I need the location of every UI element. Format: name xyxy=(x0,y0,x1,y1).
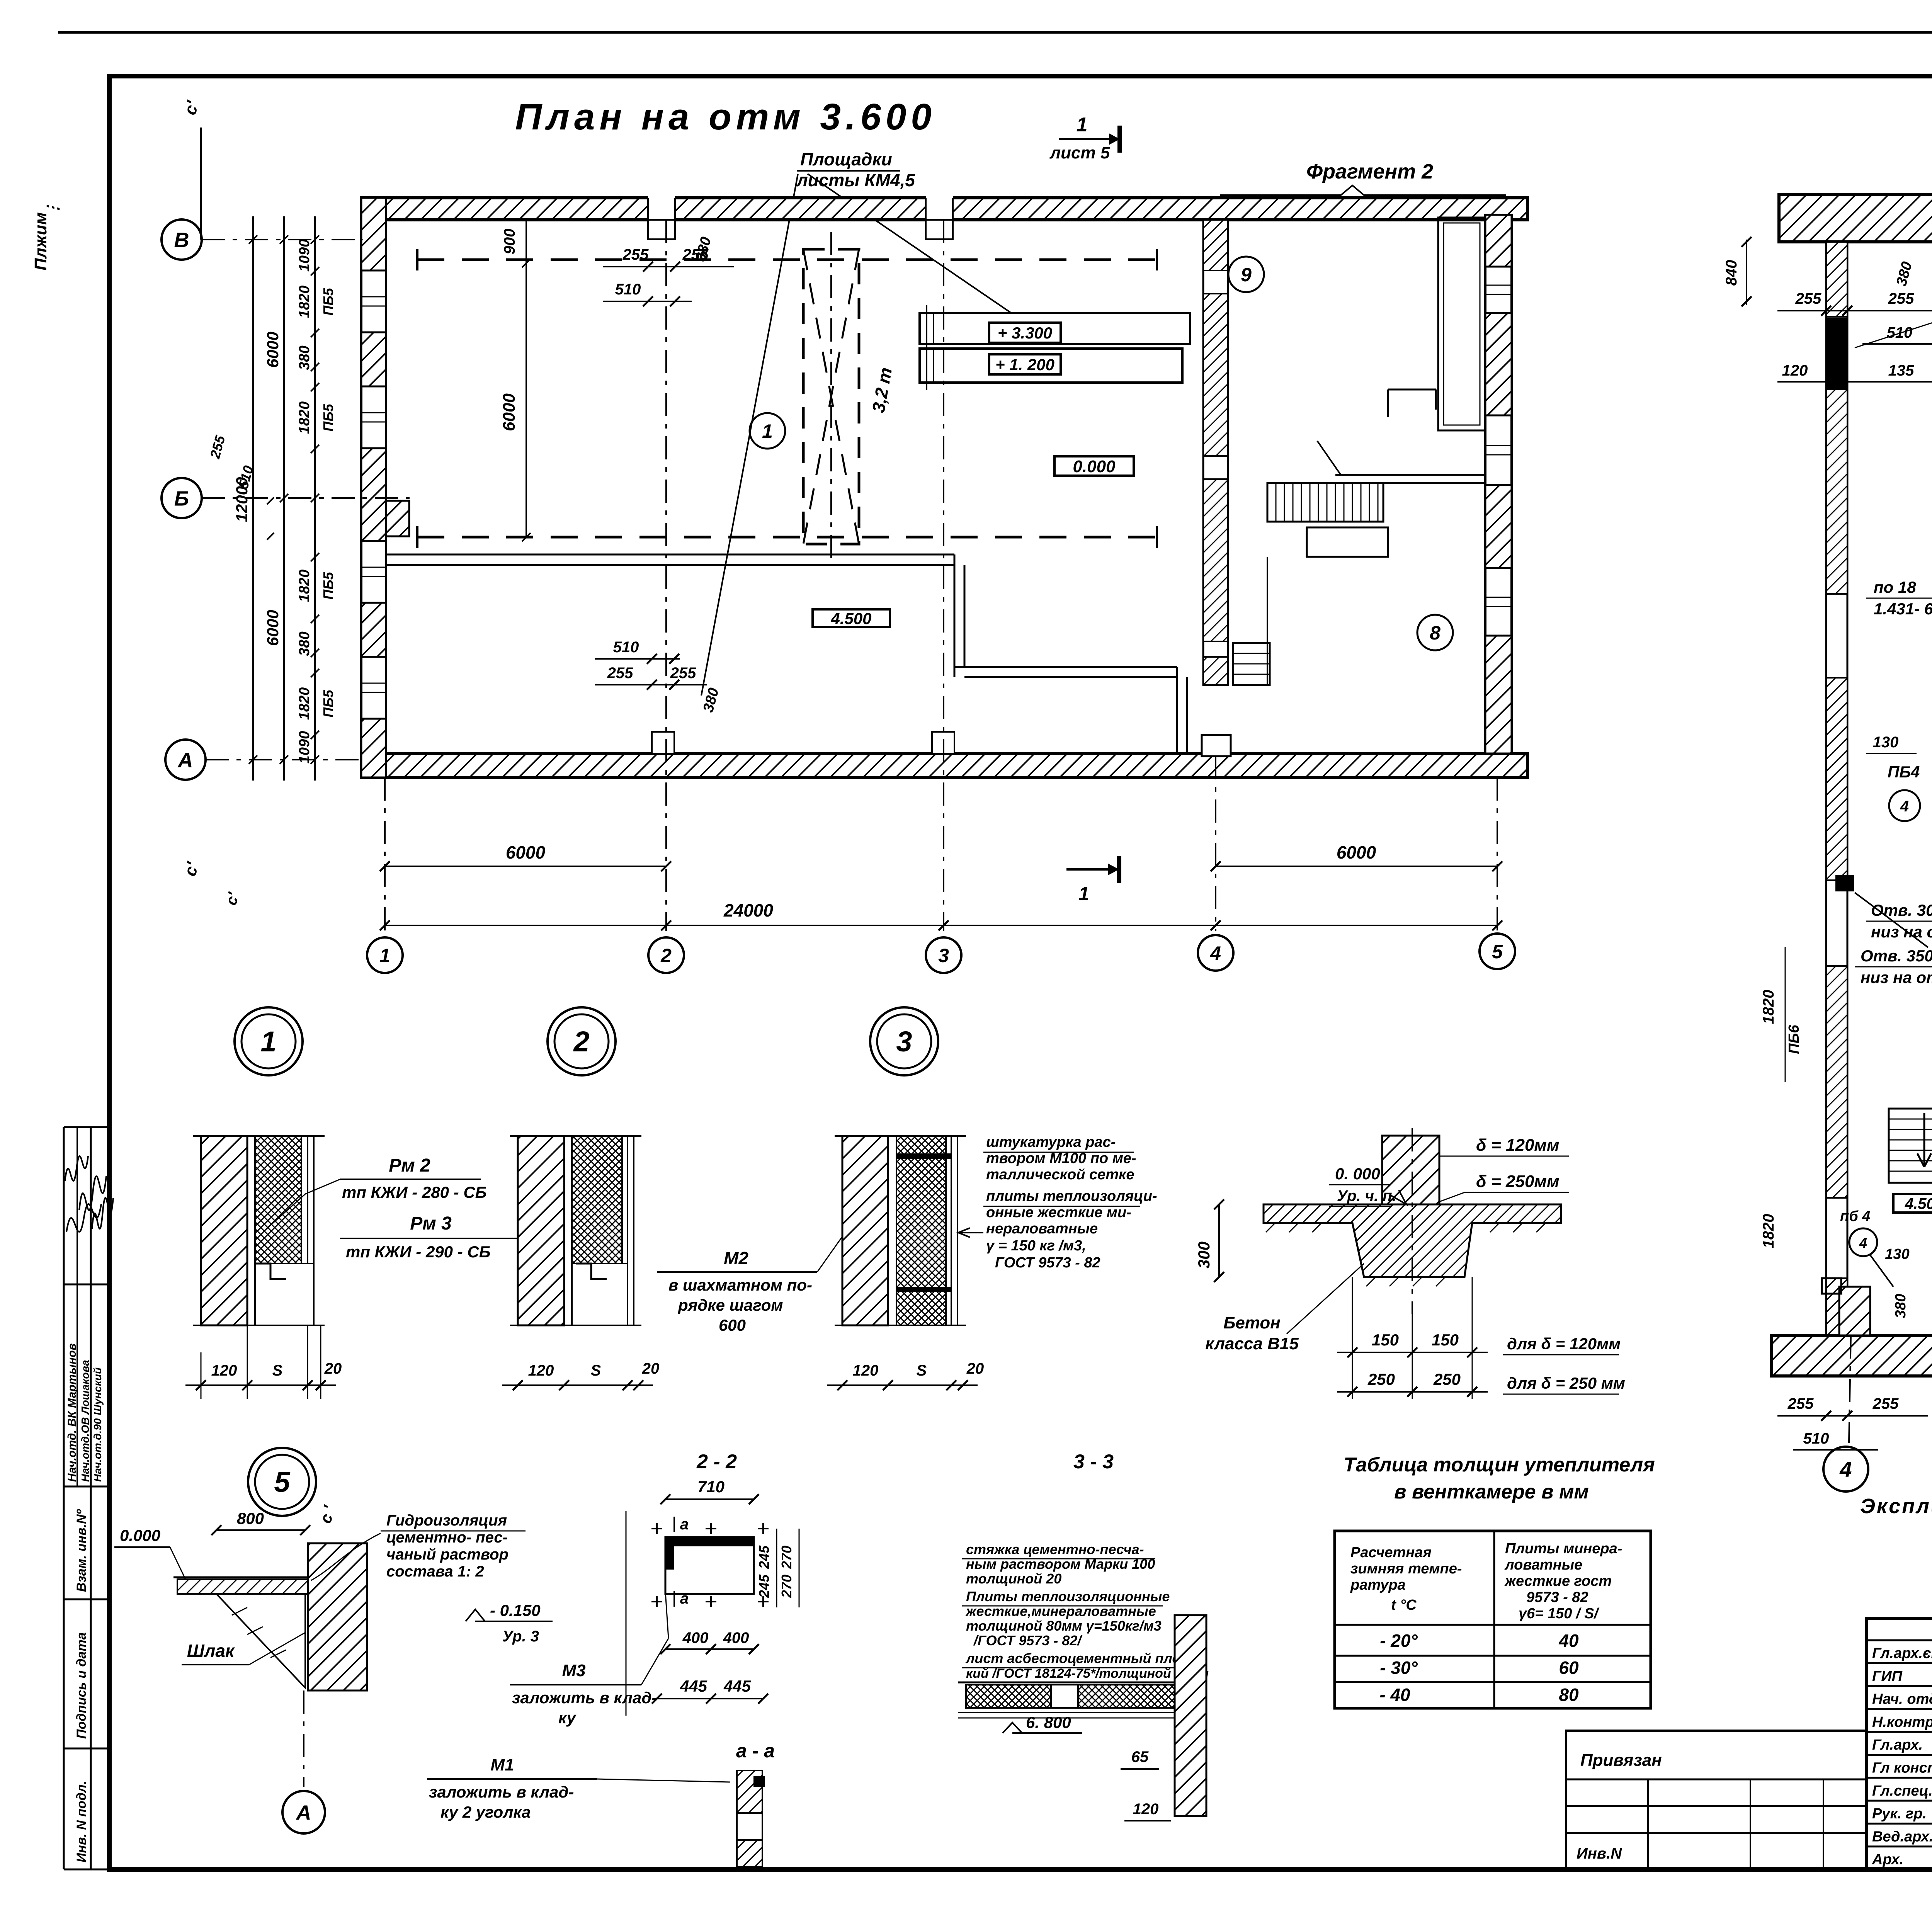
svg-text:1: 1 xyxy=(1078,883,1089,905)
node4 wall stub xyxy=(1382,1136,1439,1204)
svg-text:Бетон: Бетон xyxy=(1223,1313,1281,1332)
svg-text:40: 40 xyxy=(1558,1631,1579,1651)
svg-text:255: 255 xyxy=(1787,1395,1814,1412)
svg-text:γ6= 150 / S/: γ6= 150 / S/ xyxy=(1519,1605,1599,1622)
svg-text:для δ = 250 мм: для δ = 250 мм xyxy=(1507,1374,1625,1392)
svg-text:М3: М3 xyxy=(562,1661,585,1680)
svg-text:1820: 1820 xyxy=(1760,990,1777,1024)
node5 slag triangle xyxy=(216,1594,305,1688)
svg-text:250: 250 xyxy=(1433,1370,1461,1388)
minus 0150 mark xyxy=(466,1609,485,1621)
platform beams xyxy=(920,313,1190,344)
svg-text:Гл.арх.єн: Гл.арх.єн xyxy=(1872,1645,1932,1662)
svg-text:6000: 6000 xyxy=(264,610,282,646)
crane runway dashed lines xyxy=(417,259,1157,261)
svg-text:- 20°: - 20° xyxy=(1380,1631,1418,1651)
svg-text:250: 250 xyxy=(1367,1370,1395,1388)
svg-text:а: а xyxy=(680,1516,689,1533)
svg-text:9573 - 82: 9573 - 82 xyxy=(1526,1589,1588,1605)
svg-text:300: 300 xyxy=(1195,1242,1213,1269)
frag bottom wall xyxy=(1772,1335,1932,1376)
svg-text:Нач. отд: Нач. отд xyxy=(1872,1691,1932,1708)
svg-text:- 40: - 40 xyxy=(1379,1685,1410,1705)
bottom dim row 6000 xyxy=(385,866,666,867)
svg-text:6000: 6000 xyxy=(506,842,546,862)
crane outline dashed xyxy=(803,249,859,544)
left margin table strip xyxy=(64,1126,109,1128)
svg-text:δ = 250мм: δ = 250мм xyxy=(1476,1172,1560,1191)
svg-text:в венткамере в мм: в венткамере в мм xyxy=(1394,1481,1589,1503)
svg-text:135: 135 xyxy=(1888,362,1914,379)
node4 ground band xyxy=(1264,1204,1561,1277)
svg-text:ловатные: ловатные xyxy=(1504,1557,1582,1573)
svg-text:плиты теплоизоляци-: плиты теплоизоляци- xyxy=(986,1188,1157,1204)
svg-text:Ур. ч. п.: Ур. ч. п. xyxy=(1337,1187,1396,1204)
svg-text:Отв. 350х350 ОВ: Отв. 350х350 ОВ xyxy=(1861,947,1932,965)
svg-text:Гл.спец.: Гл.спец. xyxy=(1872,1783,1932,1799)
svg-text:20: 20 xyxy=(324,1360,342,1377)
node2 dims xyxy=(502,1384,653,1386)
svg-text:1090: 1090 xyxy=(296,731,313,764)
axis A row xyxy=(206,759,363,760)
svg-text:445: 445 xyxy=(680,1677,707,1695)
node3 wall section xyxy=(842,1136,888,1325)
leader line long diagonal xyxy=(701,174,798,696)
svg-text:ГОСТ 9573 - 82: ГОСТ 9573 - 82 xyxy=(995,1255,1100,1271)
axis4 wall chimney xyxy=(1202,735,1231,756)
svg-text:S: S xyxy=(272,1362,283,1379)
stair hook wall xyxy=(1387,389,1389,417)
svg-text:400: 400 xyxy=(723,1629,749,1646)
node1 dims xyxy=(201,1352,202,1399)
svg-text:Ур. 3: Ур. 3 xyxy=(502,1628,539,1645)
frag top wall xyxy=(1779,195,1932,242)
svg-text:кий /ГОСТ 18124-75*/толщиной 1: кий /ГОСТ 18124-75*/толщиной 10мм xyxy=(966,1666,1209,1681)
svg-text:S: S xyxy=(917,1362,927,1379)
svg-text:Инв. N подл.: Инв. N подл. xyxy=(74,1781,89,1862)
svg-text:состава 1: 2: состава 1: 2 xyxy=(386,1563,484,1580)
svg-text:120: 120 xyxy=(1133,1801,1159,1818)
svg-text:4: 4 xyxy=(1900,798,1909,815)
svg-text:255: 255 xyxy=(670,665,696,682)
vertical axes xyxy=(384,777,386,931)
svg-text:1.431- 6: 1.431- 6 xyxy=(1874,600,1932,618)
svg-text:Гл.арх.: Гл.арх. xyxy=(1872,1737,1923,1753)
room 9 circle xyxy=(1228,257,1264,292)
svg-text:0. 000: 0. 000 xyxy=(1335,1165,1380,1183)
left wall xyxy=(361,198,386,777)
svg-text:120: 120 xyxy=(528,1362,554,1379)
svg-text:4: 4 xyxy=(1839,1457,1852,1481)
svg-text:Плжим: Плжим xyxy=(31,212,50,270)
svg-text:- 30°: - 30° xyxy=(1380,1658,1418,1678)
svg-text:Инв.N: Инв.N xyxy=(1577,1845,1622,1862)
svg-text:130: 130 xyxy=(1885,1246,1909,1262)
svg-text:нераловатные: нераловатные xyxy=(986,1221,1098,1237)
svg-text:ГИП: ГИП xyxy=(1872,1668,1903,1684)
svg-text:800: 800 xyxy=(237,1509,264,1527)
svg-text:1820: 1820 xyxy=(296,286,313,318)
svg-text:900: 900 xyxy=(501,229,518,255)
node circle 3 xyxy=(870,1007,938,1075)
svg-text:150: 150 xyxy=(1372,1331,1399,1349)
node5 wall column xyxy=(308,1543,367,1690)
svg-text:М1: М1 xyxy=(490,1755,514,1774)
svg-text:В: В xyxy=(174,228,189,252)
0.000 label xyxy=(1054,456,1134,476)
svg-text:4: 4 xyxy=(1859,1235,1867,1251)
small stair with 4.500 xyxy=(1889,1109,1932,1183)
frag axis 4 circle xyxy=(1849,1335,1851,1443)
6.800 mark xyxy=(1003,1723,1022,1733)
bottom dim row 24000 xyxy=(385,925,1497,926)
svg-text:Отв. 300 х300 ОВ: Отв. 300 х300 ОВ xyxy=(1871,901,1932,919)
svg-text:2: 2 xyxy=(573,1026,589,1058)
svg-text:Нач.отд. ВК Мартынов: Нач.отд. ВК Мартынов xyxy=(66,1343,78,1482)
svg-text:стяжка цементно-песча-: стяжка цементно-песча- xyxy=(966,1541,1144,1557)
svg-text:Б: Б xyxy=(174,487,189,510)
room number 1 xyxy=(750,413,785,449)
svg-text:ку 2 уголка: ку 2 уголка xyxy=(440,1803,531,1821)
svg-text:4: 4 xyxy=(1210,942,1221,964)
svg-text:ПБ4: ПБ4 xyxy=(1888,763,1920,781)
svg-text:1090: 1090 xyxy=(296,239,313,272)
svg-text:толщиной 20: толщиной 20 xyxy=(966,1571,1061,1587)
svg-text:380: 380 xyxy=(296,631,313,656)
svg-text:1: 1 xyxy=(379,945,390,966)
svg-text:600: 600 xyxy=(719,1316,746,1334)
svg-text:510: 510 xyxy=(613,639,639,656)
svg-text:Н.контр: Н.контр xyxy=(1872,1714,1932,1730)
svg-text:S: S xyxy=(591,1362,601,1379)
svg-text:60: 60 xyxy=(1559,1658,1579,1678)
svg-text:γ = 150 кг /м3,: γ = 150 кг /м3, xyxy=(986,1238,1086,1254)
svg-text:ку: ку xyxy=(558,1709,577,1727)
svg-text:Рм 2: Рм 2 xyxy=(389,1155,430,1176)
node1 wall section xyxy=(201,1136,247,1325)
svg-text:5: 5 xyxy=(274,1466,291,1498)
svg-text:Шлак: Шлак xyxy=(187,1641,235,1661)
svg-text:2: 2 xyxy=(660,945,672,966)
svg-text:Плиты минера-: Плиты минера- xyxy=(1505,1541,1622,1557)
svg-text:1820: 1820 xyxy=(296,401,313,434)
svg-text:270: 270 xyxy=(779,1546,794,1569)
small stair xyxy=(1233,643,1270,685)
svg-text:заложить в клад-: заложить в клад- xyxy=(429,1783,574,1801)
svg-text:низ на отм.6.650: низ на отм.6.650 xyxy=(1871,923,1932,941)
corner detail bottom-left xyxy=(1839,1287,1870,1335)
svg-text:80: 80 xyxy=(1559,1685,1579,1705)
svg-text:рядке шагом: рядке шагом xyxy=(678,1296,783,1314)
svg-text:9: 9 xyxy=(1241,264,1252,286)
svg-text:1: 1 xyxy=(762,420,773,442)
svg-text:толщиной 80мм γ=150кг/м3: толщиной 80мм γ=150кг/м3 xyxy=(966,1618,1162,1634)
svg-text:Расчетная: Расчетная xyxy=(1350,1544,1432,1561)
node circle 5 xyxy=(248,1448,316,1516)
svg-text:120: 120 xyxy=(1782,362,1808,379)
axis B row xyxy=(202,239,363,240)
svg-text:20: 20 xyxy=(966,1360,984,1377)
svg-text:Площадки: Площадки xyxy=(800,149,892,169)
frag left wall lintel black xyxy=(1826,318,1847,389)
left dim chain 6000 xyxy=(283,216,285,781)
svg-text:255: 255 xyxy=(1795,290,1821,307)
insulation table xyxy=(1335,1531,1651,1708)
svg-text:δ = 120мм: δ = 120мм xyxy=(1476,1136,1560,1155)
svg-text:низ на отм. 7.600: низ на отм. 7.600 xyxy=(1861,968,1932,986)
svg-text:Арх.: Арх. xyxy=(1872,1852,1903,1868)
section mark 1 bottom xyxy=(1066,868,1108,871)
svg-text:2 - 2: 2 - 2 xyxy=(696,1451,737,1473)
svg-text:t °С: t °С xyxy=(1391,1597,1417,1613)
node2 wall section xyxy=(518,1136,564,1325)
svg-text:/ГОСТ 9573 - 82/: /ГОСТ 9573 - 82/ xyxy=(973,1633,1083,1648)
bottom wall xyxy=(361,753,1527,777)
node5 axis A xyxy=(303,1690,304,1787)
svg-text:6. 800: 6. 800 xyxy=(1026,1713,1071,1731)
svg-text:ПБ5: ПБ5 xyxy=(320,689,336,717)
svg-text:⋮: ⋮ xyxy=(44,201,61,216)
svg-text:ПБ5: ПБ5 xyxy=(320,571,336,599)
4.500 label xyxy=(813,609,890,627)
svg-text:245: 245 xyxy=(756,1574,772,1598)
+3.300 label xyxy=(989,323,1061,343)
svg-text:20: 20 xyxy=(642,1360,660,1377)
svg-text:0.000: 0.000 xyxy=(120,1526,160,1544)
svg-text:а - а: а - а xyxy=(736,1740,775,1762)
svg-text:Плиты теплоизоляционные: Плиты теплоизоляционные xyxy=(966,1588,1170,1604)
title block outer xyxy=(1866,1619,1932,1869)
svg-text:1: 1 xyxy=(1077,114,1088,136)
svg-text:400: 400 xyxy=(682,1629,709,1646)
frag left wall xyxy=(1826,242,1847,1335)
svg-text:цементно- пес-: цементно- пес- xyxy=(386,1529,508,1546)
stair treads xyxy=(1267,483,1383,522)
svg-text:120: 120 xyxy=(853,1362,879,1379)
svg-text:А: А xyxy=(296,1801,311,1824)
room 8 circle xyxy=(1417,615,1453,650)
svg-text:ратура: ратура xyxy=(1350,1577,1406,1593)
svg-text:А: А xyxy=(177,748,193,772)
svg-text:Привязан: Привязан xyxy=(1580,1751,1662,1770)
svg-text:0.000: 0.000 xyxy=(1073,457,1116,476)
stair lower enclosure line xyxy=(1267,557,1268,685)
section mark 1 list5 top xyxy=(1059,138,1109,140)
svg-text:3 - 3: 3 - 3 xyxy=(1073,1451,1114,1473)
diagonal door leader xyxy=(1317,441,1341,475)
svg-text:в шахматном по-: в шахматном по- xyxy=(668,1276,812,1294)
svg-text:255: 255 xyxy=(1872,1395,1899,1412)
svg-text:листы КМ4,5: листы КМ4,5 xyxy=(796,170,915,190)
svg-text:тп КЖИ - 290 - СБ: тп КЖИ - 290 - СБ xyxy=(346,1243,490,1261)
svg-text:класса В15: класса В15 xyxy=(1205,1334,1299,1353)
svg-text:130: 130 xyxy=(1873,734,1899,751)
svg-text:зимняя темпе-: зимняя темпе- xyxy=(1350,1561,1462,1577)
svg-text:+ 1. 200: + 1. 200 xyxy=(995,355,1054,374)
svg-text:1: 1 xyxy=(260,1026,276,1058)
node4 dim rows xyxy=(1352,1277,1353,1399)
svg-text:270: 270 xyxy=(779,1575,794,1598)
margin signatures xyxy=(65,1156,88,1181)
svg-text:Гл констр.: Гл констр. xyxy=(1872,1760,1932,1776)
svg-text:1820: 1820 xyxy=(1760,1214,1777,1248)
svg-text:24000: 24000 xyxy=(723,900,773,920)
node circle 1 xyxy=(235,1007,303,1075)
svg-text:380: 380 xyxy=(296,345,313,370)
node4 ground ticks xyxy=(1266,1223,1275,1232)
svg-text:для δ = 120мм: для δ = 120мм xyxy=(1507,1335,1621,1353)
left wall pilaster at B axis xyxy=(386,501,409,536)
svg-text:чаный раствор: чаный раствор xyxy=(386,1546,509,1563)
svg-text:лист 5: лист 5 xyxy=(1049,143,1110,162)
svg-text:жесткие гост: жесткие гост xyxy=(1504,1573,1612,1589)
svg-text:255: 255 xyxy=(622,246,649,263)
left dim chain 12000 xyxy=(252,216,254,781)
svg-text:65: 65 xyxy=(1131,1748,1149,1765)
svg-text:штукатурка рас-: штукатурка рас- xyxy=(986,1134,1116,1150)
svg-text:Вед.арх.: Вед.арх. xyxy=(1872,1828,1932,1845)
svg-text:Гидроизоляция: Гидроизоляция xyxy=(386,1512,507,1529)
axis4 interior wall xyxy=(1203,220,1228,685)
svg-text:Нач.отд.ОВ Лошакова: Нач.отд.ОВ Лошакова xyxy=(79,1360,91,1482)
svg-text:ПБ5: ПБ5 xyxy=(320,287,336,315)
svg-text:ПБ6: ПБ6 xyxy=(1786,1024,1802,1054)
axis B2 row xyxy=(202,497,410,499)
fragment2 brace on plan xyxy=(1220,185,1506,195)
svg-text:840: 840 xyxy=(1723,260,1740,286)
svg-text:План на отм 3.600: План на отм 3.600 xyxy=(515,96,936,138)
svg-text:Рук. гр.: Рук. гр. xyxy=(1872,1806,1927,1822)
svg-text:М2: М2 xyxy=(724,1248,748,1268)
svg-text:ПБ5: ПБ5 xyxy=(320,403,336,431)
stair landing hatched xyxy=(1307,527,1388,557)
svg-text:510: 510 xyxy=(1803,1430,1829,1447)
svg-text:255: 255 xyxy=(607,665,633,682)
left dim chain inner xyxy=(314,216,316,781)
svg-text:510: 510 xyxy=(615,281,641,298)
stair mid landing line xyxy=(1335,474,1485,476)
svg-text:6000: 6000 xyxy=(1337,842,1376,862)
svg-text:Нач.от.д.90 Шунский: Нач.от.д.90 Шунский xyxy=(92,1367,104,1482)
svg-text:по 18: по 18 xyxy=(1874,578,1916,596)
svg-text:8: 8 xyxy=(1430,622,1440,644)
svg-text:Фрагмент 2: Фрагмент 2 xyxy=(1306,160,1433,183)
svg-text:710: 710 xyxy=(697,1478,724,1496)
svg-text:4.500: 4.500 xyxy=(830,609,871,628)
svg-text:5: 5 xyxy=(1492,941,1503,963)
top wall door notches xyxy=(648,196,675,221)
svg-text:3: 3 xyxy=(938,945,949,966)
svg-text:а: а xyxy=(680,1590,689,1607)
+1.200 label xyxy=(989,354,1061,374)
partition walls xyxy=(386,554,954,556)
svg-text:245: 245 xyxy=(756,1545,772,1569)
svg-text:Взам. инв.Nº: Взам. инв.Nº xyxy=(74,1509,89,1592)
node3 dims xyxy=(827,1384,978,1386)
svg-text:445: 445 xyxy=(723,1677,751,1695)
svg-text:+ 3.300: + 3.300 xyxy=(998,324,1052,342)
svg-text:лист асбестоцементный плос-: лист асбестоцементный плос- xyxy=(965,1650,1193,1666)
3-3 drawing xyxy=(966,1685,1051,1708)
svg-text:Таблица толщин утеплителя: Таблица толщин утеплителя xyxy=(1344,1454,1655,1476)
svg-text:380: 380 xyxy=(1893,1294,1909,1318)
svg-text:510: 510 xyxy=(1887,324,1913,341)
node5 slab xyxy=(177,1579,308,1594)
svg-text:Подпись и дата: Подпись и дата xyxy=(74,1632,89,1739)
svg-text:1820: 1820 xyxy=(296,687,313,720)
right wall axis5 xyxy=(1485,215,1512,753)
svg-text:Экспликацию помещений смот: Экспликацию помещений смотреть на листе … xyxy=(1860,1495,1932,1518)
svg-text:150: 150 xyxy=(1432,1331,1459,1349)
svg-text:- 0.150: - 0.150 xyxy=(490,1601,541,1619)
privyazan table xyxy=(1566,1731,1866,1869)
svg-text:3: 3 xyxy=(896,1026,912,1058)
top wall xyxy=(361,198,1527,220)
node circle 2 xyxy=(548,1007,616,1075)
svg-text:4.500: 4.500 xyxy=(1905,1195,1932,1212)
svg-text:6000: 6000 xyxy=(264,332,282,367)
svg-text:1820: 1820 xyxy=(296,570,313,602)
svg-text:255: 255 xyxy=(1888,290,1914,307)
svg-text:пб 4: пб 4 xyxy=(1840,1208,1870,1225)
vent chamber lining xyxy=(1438,218,1485,430)
svg-text:тп КЖИ - 280 - СБ: тп КЖИ - 280 - СБ xyxy=(342,1183,486,1201)
svg-text:Рм 3: Рм 3 xyxy=(410,1213,452,1234)
paper top edge line xyxy=(58,31,1932,34)
top inner dims xyxy=(526,220,527,537)
svg-text:таллической сетке: таллической сетке xyxy=(986,1167,1134,1183)
svg-text:6000: 6000 xyxy=(500,393,519,431)
svg-text:120: 120 xyxy=(211,1362,237,1379)
svg-text:заложить в клад-: заложить в клад- xyxy=(512,1689,657,1707)
